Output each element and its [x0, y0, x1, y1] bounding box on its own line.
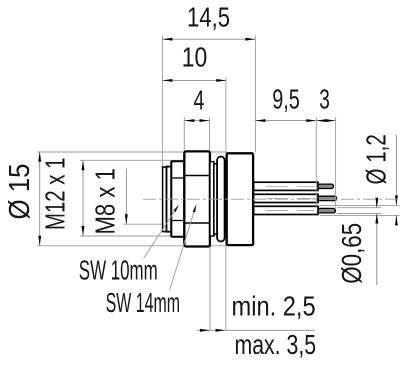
dimension M8x1: [125, 169, 127, 225]
svg-text:4: 4: [194, 85, 205, 116]
pin 3 (solder pin): [318, 208, 335, 213]
extension line M8 bottom: [123, 223, 162, 225]
neck (M8 thread front): [167, 167, 172, 232]
extension line 4 left: [183, 117, 185, 151]
extension line Ø15 bottom: [37, 245, 227, 247]
washer A1 (M12 thread): [210, 162, 214, 236]
dimension 9,5: [255, 120, 316, 122]
dimension 3: [316, 120, 335, 122]
extension line 4 right: [209, 117, 211, 151]
wire 2 (middle contact lead): [254, 194, 318, 202]
leader SW 10mm: [144, 209, 177, 259]
hex SW10: [171, 161, 184, 237]
svg-text:10: 10: [182, 42, 208, 73]
front rim: [163, 167, 167, 232]
svg-text:M8 x 1: M8 x 1: [90, 168, 121, 234]
extension line pin dia top: [337, 207, 381, 209]
extension line wire dia bottom: [320, 214, 400, 216]
dimension 4: [184, 120, 209, 122]
svg-text:Ø 15: Ø 15: [3, 164, 36, 220]
dimension Ø15: [39, 152, 41, 246]
wire 1 (top contact lead): [254, 182, 318, 190]
extension line 14,5 right / 9,5 left: [254, 36, 256, 153]
extension line 3 right: [335, 117, 337, 208]
dimension min/max shelf line: [197, 329, 315, 331]
extension line M12 bottom: [80, 235, 212, 237]
dimension 10: [162, 79, 226, 81]
pin 1 (solder pin): [318, 184, 333, 188]
extension line min/max left: [209, 162, 211, 331]
extension line 10 right: [225, 77, 227, 330]
dimension Ø0,65: [376, 199, 378, 208]
svg-text:min. 2,5: min. 2,5: [232, 292, 316, 322]
centerline (axis): [143, 198, 400, 200]
hex SW14: [184, 151, 210, 246]
extension line 14,5 left / 10 left: [161, 36, 163, 167]
svg-text:SW 14mm: SW 14mm: [106, 286, 180, 318]
dimension Ø1,2: [395, 135, 397, 205]
extension line Ø15 top: [37, 151, 227, 153]
extension line pin dia bottom: [337, 213, 381, 215]
wire 3 (bottom contact lead): [254, 206, 318, 214]
dimension 14,5: [162, 38, 255, 40]
pin 2 (solder pin): [318, 196, 337, 200]
svg-text:Ø 1,2: Ø 1,2: [362, 134, 393, 184]
svg-text:9,5: 9,5: [272, 84, 300, 115]
svg-text:14,5: 14,5: [187, 2, 230, 33]
svg-text:Ø0,65: Ø0,65: [337, 223, 368, 284]
flange: [227, 153, 253, 245]
dimension M12x1: [82, 160, 84, 236]
extension line M12 top: [80, 159, 184, 161]
svg-text:3: 3: [319, 84, 330, 116]
extension line 9,5 right / 3 left: [315, 117, 317, 206]
washer A2: [214, 164, 217, 234]
svg-text:max. 3,5: max. 3,5: [235, 329, 317, 361]
leader SW 14mm: [170, 210, 195, 291]
o-ring: [217, 157, 225, 242]
extension line wire dia top: [320, 204, 400, 206]
svg-text:SW 10mm: SW 10mm: [79, 254, 158, 285]
svg-text:M12 x 1: M12 x 1: [40, 158, 71, 230]
